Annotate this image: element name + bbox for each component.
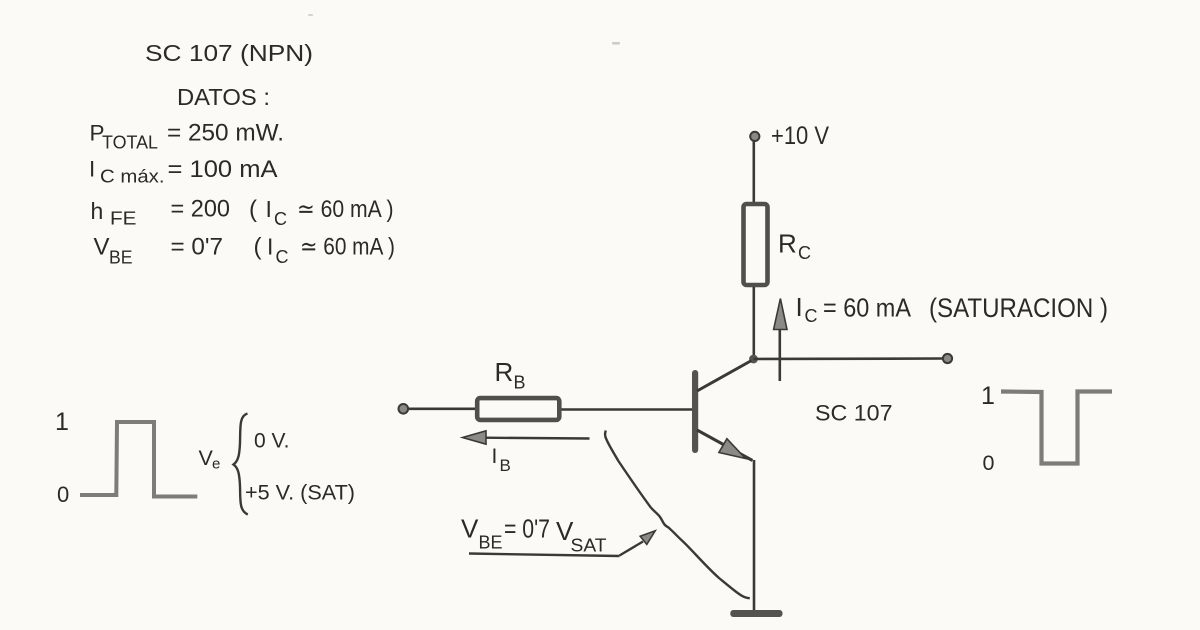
label VBE = 0'7 VSAT: [461, 514, 607, 556]
svg-text:+10 V: +10 V: [771, 122, 829, 150]
svg-text:= 100 mA: = 100 mA: [168, 156, 278, 183]
svg-text:(: (: [254, 234, 262, 261]
value label I_C max = 100 mA: [89, 156, 278, 187]
wire collector node to output: [754, 357, 947, 360]
svg-text:0: 0: [983, 451, 995, 475]
wire RC to collector node: [752, 287, 755, 359]
svg-text:I: I: [89, 157, 95, 182]
svg-text:V: V: [94, 234, 110, 261]
svg-text:SC 107: SC 107: [815, 400, 893, 425]
svg-text:I: I: [796, 292, 803, 322]
svg-text:C: C: [805, 306, 818, 326]
scanner speck top left: [308, 14, 313, 16]
transistor Q1 SC107 base bar: [692, 370, 698, 453]
arrow IC current: [774, 299, 787, 382]
svg-text:(SATURACION ): (SATURACION ): [929, 293, 1108, 323]
wire RB to base: [562, 408, 693, 411]
node +10V terminal dot: [750, 132, 759, 141]
svg-text:V: V: [461, 514, 479, 544]
output waveform pulse: [1001, 392, 1112, 464]
value label h_FE = 200 (IC = 60 mA): [91, 196, 394, 230]
svg-text:+5 V. (SAT): +5 V. (SAT): [245, 482, 355, 505]
svg-text:1: 1: [981, 382, 995, 410]
transistor emitter arrowhead: [719, 439, 746, 459]
svg-text:= 250 mW.: = 250 mW.: [167, 120, 284, 147]
svg-text:= 0'7: = 0'7: [504, 514, 550, 544]
svg-text:C: C: [276, 247, 289, 267]
svg-text:≃ 60 mA ): ≃ 60 mA ): [300, 234, 395, 261]
svg-text:I: I: [492, 445, 498, 468]
svg-text:TOTAL: TOTAL: [102, 133, 158, 153]
wire +10V to RC: [752, 141, 755, 204]
svg-text:B: B: [500, 456, 511, 475]
svg-text:I: I: [267, 234, 273, 260]
svg-text:B: B: [514, 373, 526, 393]
svg-text:BE: BE: [109, 248, 133, 268]
label IC = 60 mA (SATURACION): [796, 292, 1109, 326]
wire input to RB: [407, 407, 478, 410]
svg-text:C: C: [798, 243, 811, 263]
arrow IB current: [463, 431, 590, 444]
svg-text:R: R: [495, 357, 514, 387]
resistor RC: [744, 204, 768, 285]
svg-text:≃ 60 mA ): ≃ 60 mA ): [297, 196, 394, 223]
svg-text:0: 0: [57, 482, 69, 507]
svg-text:(: (: [249, 196, 257, 223]
arrow pointer to base-emitter: [620, 531, 656, 556]
svg-text:C máx.: C máx.: [100, 167, 165, 187]
svg-text:R: R: [778, 229, 797, 259]
brace for Ve values: [234, 414, 248, 515]
leader curve base to emitter: [605, 431, 750, 599]
input waveform pulse: [80, 422, 197, 497]
scanner speck top: [612, 42, 620, 45]
svg-text:e: e: [212, 456, 220, 473]
resistor RB: [477, 398, 559, 420]
svg-text:1: 1: [55, 408, 69, 436]
node input terminal dot: [399, 404, 409, 414]
svg-text:= 0'7: = 0'7: [171, 234, 224, 261]
value label P_TOTAL = 250 mW: [90, 120, 285, 153]
svg-text:h: h: [91, 198, 104, 224]
svg-text:C: C: [274, 209, 287, 229]
svg-text:BE: BE: [479, 533, 503, 553]
ground bar: [730, 610, 782, 617]
svg-text:0 V.: 0 V.: [254, 430, 289, 453]
svg-text:= 200: = 200: [171, 196, 231, 223]
value label V_BE = 0'7 (IC = 60 mA): [94, 234, 396, 268]
svg-text:FE: FE: [110, 209, 137, 229]
svg-text:SC 107 (NPN): SC 107 (NPN): [145, 40, 313, 66]
svg-text:SAT: SAT: [571, 536, 607, 556]
node collector junction: [749, 355, 758, 364]
svg-text:I: I: [266, 196, 272, 222]
wire emitter down: [753, 460, 756, 611]
transistor emitter lead: [697, 430, 753, 461]
svg-text:DATOS :: DATOS :: [177, 84, 270, 110]
svg-text:= 60 mA: = 60 mA: [823, 293, 912, 323]
node output terminal dot: [943, 354, 952, 363]
transistor collector lead: [697, 361, 752, 392]
underline of VBE label: [469, 554, 620, 557]
